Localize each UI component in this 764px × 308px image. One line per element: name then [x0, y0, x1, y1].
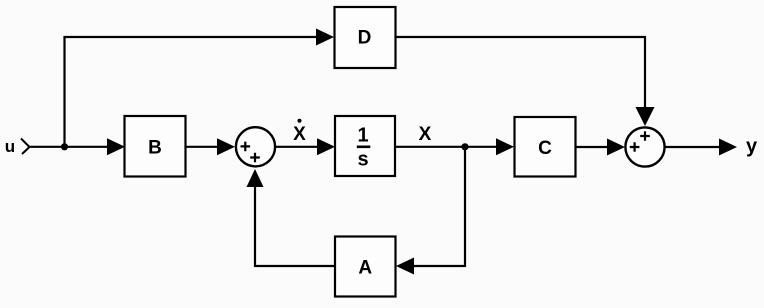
node u branch junction: [61, 143, 68, 150]
wire u to B: [30, 146, 121, 148]
wire A to sum1 bottom: [255, 183, 335, 266]
svg-text:X: X: [419, 124, 432, 145]
wire junction up to D: [65, 37, 321, 147]
arrowhead into C: [496, 138, 514, 155]
svg-text:1: 1: [357, 125, 368, 147]
node state branch junction: [461, 143, 468, 150]
arrowhead into D: [316, 29, 334, 46]
svg-text:X: X: [293, 124, 306, 145]
arrowhead into integrator: [317, 138, 335, 155]
svg-text:A: A: [358, 258, 372, 279]
summing junction sum1: [236, 127, 275, 166]
wire integrator to C: [395, 146, 500, 148]
svg-text:B: B: [148, 138, 162, 159]
arrowhead output y: [719, 139, 737, 156]
label Xdot: [293, 119, 306, 145]
svg-text:u: u: [5, 137, 15, 156]
summing junction sum2: [625, 127, 664, 166]
svg-text:s: s: [357, 149, 368, 171]
input port u: [5, 137, 30, 156]
wire sum2 to output: [665, 146, 722, 148]
wire C to sum2: [576, 146, 616, 148]
arrowhead into B: [107, 138, 125, 155]
arrowhead into sum2 left: [607, 139, 625, 156]
arrowhead into A right: [396, 258, 414, 275]
block D: [335, 7, 396, 68]
wire state junction down to A: [412, 147, 465, 266]
svg-text:D: D: [358, 28, 372, 49]
block A: [335, 237, 396, 297]
block B: [125, 116, 186, 177]
arrowhead into sum1 left: [217, 138, 235, 155]
svg-text:C: C: [538, 138, 552, 159]
block integrator 1/s: [335, 116, 395, 176]
wire sum1 to integrator: [275, 146, 322, 148]
wire B to sum1: [186, 146, 226, 148]
block C: [515, 117, 576, 177]
arrowhead up into sum1: [247, 169, 264, 187]
arrowhead down into sum2: [636, 107, 655, 126]
wire D to sum2 top: [396, 37, 646, 112]
svg-text:y: y: [746, 136, 758, 158]
